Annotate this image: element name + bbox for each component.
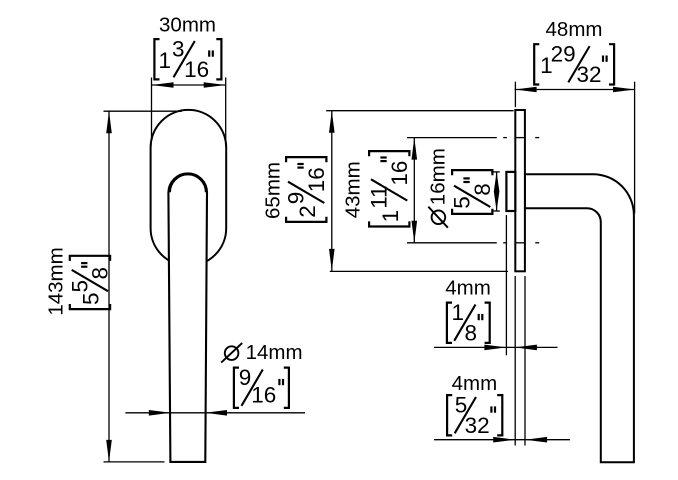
svg-text:32: 32	[576, 62, 601, 87]
centerline upper screw axis	[407, 137, 539, 139]
dimension 4mm hub thickness	[434, 215, 558, 355]
svg-text:5: 5	[450, 196, 475, 209]
svg-text:48mm: 48mm	[546, 18, 603, 41]
dimension Ø16mm hub diameter, rotated label	[427, 148, 500, 227]
svg-text:4mm: 4mm	[452, 372, 498, 395]
dimension 43mm screw centres, rotated label	[342, 138, 418, 243]
front view: handle lever (front)	[168, 174, 207, 462]
svg-text:14mm: 14mm	[246, 341, 303, 364]
svg-text:143mm: 143mm	[45, 247, 68, 315]
svg-text:16: 16	[251, 383, 276, 408]
side view: rosette plate	[515, 110, 525, 271]
svg-text:16: 16	[387, 161, 412, 186]
svg-text:9: 9	[284, 192, 309, 205]
side view: spindle hub	[506, 172, 515, 211]
svg-text:16: 16	[304, 167, 329, 192]
svg-text:8: 8	[464, 320, 477, 345]
svg-text:65mm: 65mm	[262, 162, 285, 219]
svg-text:32: 32	[465, 413, 490, 438]
svg-text:16mm: 16mm	[427, 148, 450, 205]
svg-text:5: 5	[67, 280, 92, 293]
svg-text:1: 1	[452, 300, 465, 325]
svg-text:43mm: 43mm	[342, 161, 365, 218]
svg-text:8: 8	[88, 267, 113, 280]
side view: handle L-profile	[525, 174, 634, 462]
svg-text:16: 16	[184, 57, 209, 82]
front view: lever boss arc (thick)	[169, 174, 206, 192]
svg-text:2: 2	[295, 205, 320, 218]
dimension 4mm plate thickness	[434, 276, 570, 446]
svg-text:1: 1	[378, 210, 403, 223]
svg-text:3: 3	[172, 37, 185, 62]
front view: rosette capsule	[151, 110, 227, 266]
svg-text:8: 8	[470, 183, 495, 196]
dimension Ø14mm lever diameter	[125, 341, 305, 415]
dimension 48mm depth	[515, 18, 635, 213]
svg-text:30mm: 30mm	[159, 14, 216, 37]
svg-text:1: 1	[159, 48, 172, 73]
svg-text:29: 29	[551, 42, 576, 67]
dimension 65mm rosette length, rotated label	[262, 111, 514, 272]
dimension 30mm width, label and brackets	[152, 14, 226, 141]
centerline lower screw axis	[407, 242, 539, 244]
svg-text:9: 9	[239, 365, 252, 390]
svg-text:5: 5	[79, 292, 104, 305]
dimension 143mm height, rotated label	[45, 111, 183, 462]
svg-text:4mm: 4mm	[445, 276, 491, 299]
